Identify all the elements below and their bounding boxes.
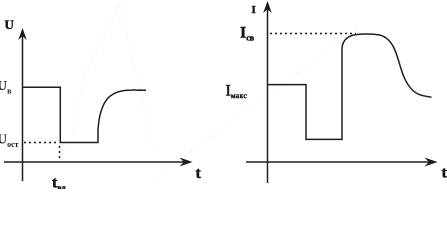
svg-text:t: t [196,165,202,182]
faint bleed-through dotted lines (scan artifact) [70,6,358,180]
x-axis arrowhead (right) [425,158,438,167]
y-axis I [267,4,269,183]
waveform I(t) [268,34,432,139]
dotted level U_ost [24,142,58,144]
x-axis arrowhead (left) [180,158,193,167]
svg-text:U: U [5,17,15,32]
y-axis arrowhead (right) [263,1,272,13]
y-axis arrowhead (left) [18,28,27,40]
dotted vertical at t_vd [59,146,61,160]
dotted level I_sv [270,33,356,35]
y-axis U [22,31,24,181]
svg-text:t: t [442,165,447,182]
x-axis t [4,161,186,163]
x-axis t [246,161,431,163]
svg-text:I: I [252,4,256,16]
waveform U(t) [23,87,147,142]
